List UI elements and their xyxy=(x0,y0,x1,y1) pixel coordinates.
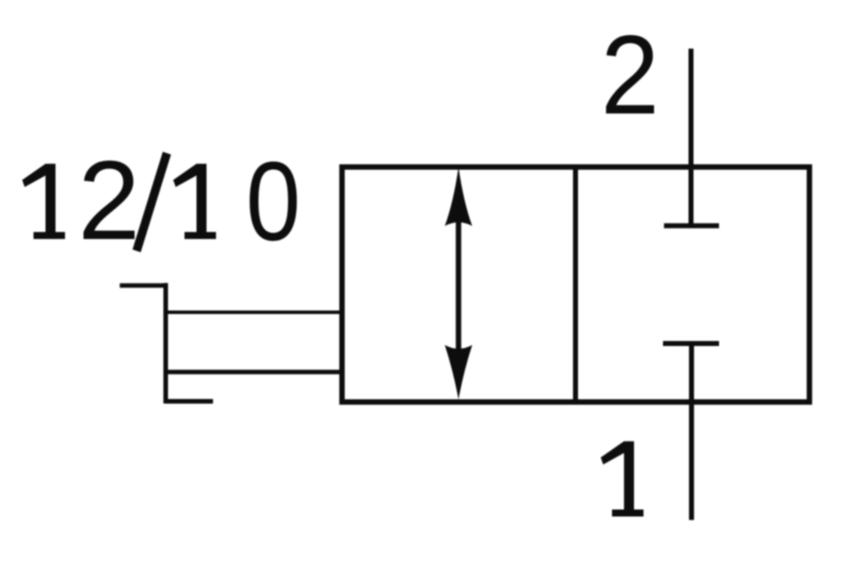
svg-text:2: 2 xyxy=(601,13,660,138)
svg-text:2: 2 xyxy=(78,138,140,263)
svg-text:0: 0 xyxy=(246,140,301,264)
